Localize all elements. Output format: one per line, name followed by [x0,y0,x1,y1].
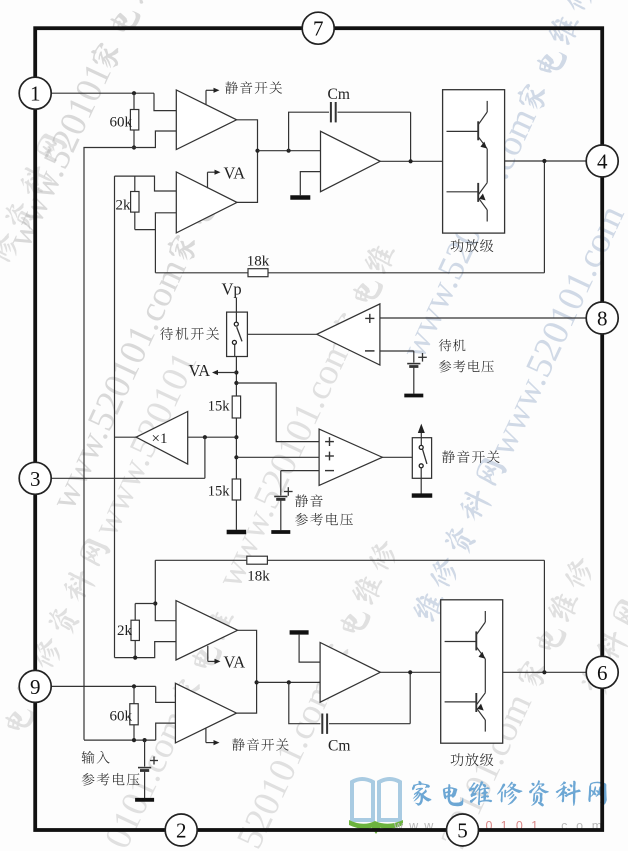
svg-text:60k: 60k [110,115,133,131]
svg-text:4: 4 [597,150,608,174]
svg-text:6: 6 [597,661,608,685]
svg-text:9: 9 [30,675,41,699]
svg-text:15k: 15k [208,399,231,415]
svg-text:18k: 18k [247,569,270,585]
svg-text:×1: ×1 [152,431,168,447]
svg-text:VA: VA [224,653,246,672]
svg-text:Cm: Cm [328,738,350,755]
svg-text:Cm: Cm [328,86,350,103]
svg-text:2: 2 [176,819,187,843]
svg-text:2k: 2k [116,198,132,214]
svg-text:2k: 2k [117,623,133,639]
svg-text:8: 8 [597,307,608,331]
svg-text:Vp: Vp [222,280,242,299]
svg-text:18k: 18k [247,254,270,270]
svg-text:60k: 60k [110,709,133,725]
svg-text:VA: VA [189,361,211,380]
svg-text:5: 5 [457,819,468,843]
svg-text:15k: 15k [208,484,231,500]
svg-text:7: 7 [313,17,324,41]
svg-text:3: 3 [30,467,41,491]
svg-text:1: 1 [30,82,41,106]
svg-text:VA: VA [224,163,246,182]
